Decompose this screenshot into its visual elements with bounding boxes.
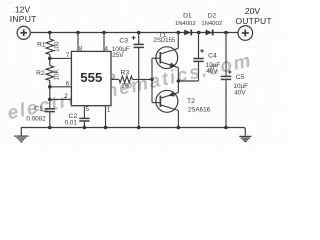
capacitor C4 <box>198 33 200 59</box>
svg-text:0.0082: 0.0082 <box>26 115 46 122</box>
pin 8 <box>77 33 79 52</box>
svg-text:100: 100 <box>53 41 60 52</box>
svg-text:1N4002: 1N4002 <box>201 21 222 27</box>
svg-text:5: 5 <box>86 106 90 113</box>
svg-text:20V: 20V <box>245 6 261 16</box>
svg-text:1: 1 <box>107 106 111 113</box>
node T1 collector <box>177 31 181 35</box>
svg-text:2SA616: 2SA616 <box>188 107 211 114</box>
svg-text:40V: 40V <box>234 90 246 97</box>
svg-text:7: 7 <box>66 52 70 59</box>
node C1 bottom <box>48 126 52 130</box>
node emitters midpoint <box>177 79 181 83</box>
svg-text:D2: D2 <box>208 13 217 20</box>
svg-text:C3: C3 <box>119 38 128 45</box>
transistor T2 2SA616 <box>152 90 178 112</box>
12V input terminal <box>17 26 30 39</box>
svg-text:12V: 12V <box>15 4 31 14</box>
svg-text:OUTPUT: OUTPUT <box>235 16 272 26</box>
wire T2 emitter <box>177 81 179 93</box>
node pin8 <box>76 31 80 35</box>
svg-text:2SD155: 2SD155 <box>154 38 176 44</box>
wire pin2 <box>50 98 72 100</box>
svg-text:100: 100 <box>121 83 132 90</box>
wire R3 to base node <box>133 78 153 80</box>
svg-text:40V: 40V <box>206 68 218 75</box>
svg-text:C4: C4 <box>208 52 217 59</box>
svg-text:D1: D1 <box>183 13 192 20</box>
capacitor C2 <box>79 117 89 119</box>
svg-text:0.01: 0.01 <box>65 120 78 127</box>
svg-text:R3: R3 <box>120 70 129 77</box>
node C5 bottom <box>224 126 228 130</box>
pin 3 <box>111 78 119 80</box>
capacitor C1 <box>49 99 51 108</box>
svg-text:10K: 10K <box>53 68 60 80</box>
svg-text:T2: T2 <box>187 98 195 105</box>
svg-text:4: 4 <box>104 46 108 53</box>
op-amp U1 555 timer <box>71 51 111 105</box>
wire down to pin2 node <box>49 87 51 100</box>
resistor R3 <box>119 76 133 83</box>
wire bottom rail <box>21 128 245 136</box>
svg-text:555: 555 <box>80 70 102 85</box>
diode D2 <box>206 30 213 36</box>
wire pin7 <box>50 57 72 59</box>
node C3 top <box>137 31 141 35</box>
node R2/pin6 <box>48 85 52 89</box>
node pin4 <box>102 31 106 35</box>
svg-text:8: 8 <box>79 46 83 53</box>
wire base line <box>151 58 153 102</box>
wire pin6 <box>50 86 72 88</box>
ground right <box>239 136 251 142</box>
svg-text:R2: R2 <box>36 70 45 77</box>
wire T1 emitter to node <box>177 68 179 81</box>
svg-text:C5: C5 <box>236 74 245 81</box>
node C2 bottom <box>83 126 87 130</box>
node base junction <box>150 78 154 82</box>
wire top rail <box>30 32 238 34</box>
svg-text:3: 3 <box>112 73 116 80</box>
node pin1 bottom <box>104 126 108 130</box>
capacitor C3 <box>138 33 140 45</box>
svg-text:INPUT: INPUT <box>10 14 37 24</box>
transistor T1 2SD155 <box>152 47 178 69</box>
ground left <box>20 128 22 137</box>
20V output terminal <box>238 26 253 41</box>
node C4 top <box>197 31 201 35</box>
node R1/R2/pin7 <box>48 57 52 61</box>
svg-text:C1: C1 <box>34 105 43 112</box>
pin 4 <box>103 33 105 52</box>
pin 1 <box>105 106 107 128</box>
resistor R1 <box>46 39 54 55</box>
wire T2 collector <box>177 111 179 128</box>
svg-text:25V: 25V <box>112 52 124 59</box>
svg-text:2: 2 <box>64 93 68 100</box>
node C3 bottom <box>137 126 141 130</box>
node T2 collector bottom <box>177 126 181 130</box>
svg-text:R1: R1 <box>37 42 46 49</box>
node pin2/C1 <box>48 98 52 102</box>
wire T1 collector <box>177 33 179 49</box>
node R1 top <box>48 31 52 35</box>
wire midpoint to C4 <box>178 80 198 82</box>
capacitor C5 <box>225 33 227 77</box>
svg-text:6: 6 <box>66 81 70 88</box>
pin 5 <box>83 106 85 119</box>
resistor R2 <box>46 66 54 81</box>
node C5 top <box>224 31 228 35</box>
svg-text:1N4002: 1N4002 <box>175 21 196 27</box>
diode D1 <box>184 30 191 36</box>
